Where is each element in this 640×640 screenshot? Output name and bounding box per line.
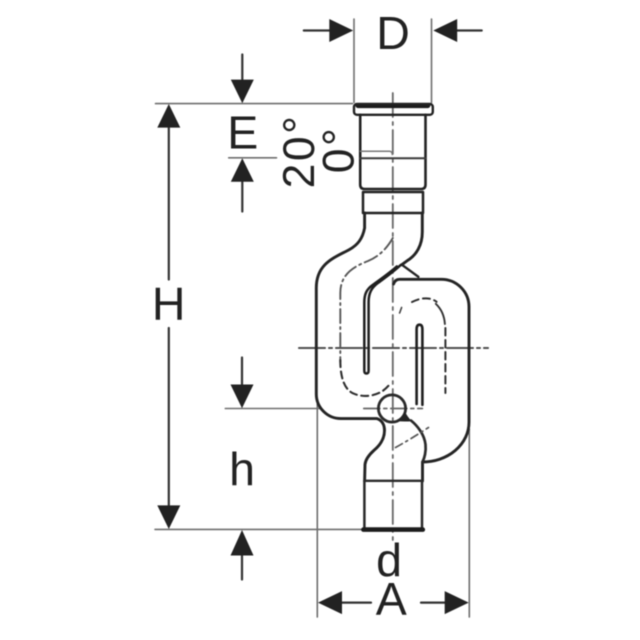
socket insertion depth line half — [361, 151, 393, 154]
arrowhead D right — [433, 19, 457, 42]
horizontal centerline outlet circle — [364, 408, 423, 410]
inlet socket body — [360, 115, 425, 189]
inlet socket flange — [354, 104, 433, 115]
svg-text:h: h — [229, 443, 255, 495]
svg-text:A: A — [376, 573, 407, 625]
extension line E bottom reference — [229, 157, 277, 159]
inner shell right dashed vertical — [444, 328, 446, 393]
svg-text:E: E — [227, 106, 258, 158]
socket insertion depth line full — [360, 157, 425, 159]
hidden dashed inner shell right — [412, 298, 437, 302]
inner shell right solid top — [436, 304, 445, 324]
dimension A line right — [421, 601, 446, 603]
inlet socket thick top rim — [358, 103, 428, 108]
arrowhead D left — [329, 19, 353, 42]
inner partition walls to left slot (hairpin) — [364, 265, 401, 374]
extension line A right — [468, 429, 470, 617]
dimension E arrow top — [241, 55, 243, 81]
dimension D line right — [457, 29, 482, 31]
arrowhead H bottom — [157, 505, 180, 529]
right slot (hairpin with rounded top) — [417, 325, 423, 405]
dimension h arrow bottom — [241, 555, 243, 580]
dimension H line — [168, 127, 170, 280]
arrowhead H top — [157, 104, 180, 128]
extension line D right — [431, 19, 433, 103]
vertical centerline — [392, 93, 394, 540]
svg-text:H: H — [152, 278, 186, 330]
dimension D line left — [304, 29, 331, 31]
inlet pipe right wall with inner hook — [402, 213, 423, 265]
hidden dashed inner U bottom arc — [340, 360, 390, 396]
outlet flow dash-dot diagonal — [396, 428, 429, 448]
filled cusp wedge at circle outlet — [397, 411, 412, 421]
dimension h arrow top — [241, 358, 243, 386]
diagonal joining hook to body — [402, 265, 419, 277]
socket lower collar — [363, 192, 423, 213]
outlet socket joint line — [365, 480, 422, 482]
small hidden dash near centerline — [400, 308, 402, 314]
extension line E top reference — [156, 103, 353, 105]
svg-text:D: D — [376, 7, 410, 59]
channel flow centerline (inlet bend, dash-dot) — [340, 238, 393, 362]
horizontal centerline body — [299, 347, 488, 349]
svg-text:0°: 0° — [315, 126, 364, 174]
extension line D left — [353, 19, 355, 103]
extension line bottom reference (H/h bottom) — [155, 528, 364, 530]
extension line h level — [225, 408, 320, 410]
outlet pipe walls — [364, 481, 422, 528]
body top edge and right wall — [394, 279, 469, 481]
dimension E arrow bottom — [241, 181, 243, 212]
outlet inner S curve — [411, 421, 426, 462]
dimension A line left — [342, 601, 371, 603]
extension line A left — [316, 400, 318, 617]
outlet hole circle — [378, 395, 405, 422]
outlet pipe thick bottom rim — [363, 527, 422, 532]
inlet pipe outer left wall into body — [316, 213, 384, 481]
